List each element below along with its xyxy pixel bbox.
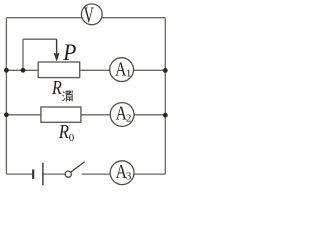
battery cell — [33, 163, 43, 185]
wire row1 A1-to-right — [133, 69, 165, 71]
voltmeter V — [81, 3, 102, 27]
slider arrow P — [54, 39, 59, 61]
wire slider feed horizontal — [23, 38, 57, 40]
svg-text:V: V — [84, 3, 95, 27]
wire row2 left segment — [6, 114, 41, 116]
svg-text:3: 3 — [126, 171, 132, 183]
wire row1 left segment — [6, 69, 38, 71]
label R0 — [58, 120, 75, 144]
node junction right-row1 — [163, 68, 168, 73]
ammeter A2 — [110, 102, 134, 127]
wire bottom-left segment — [6, 173, 32, 175]
wire top-right horizontal — [102, 17, 165, 19]
wire left vertical — [5, 18, 7, 174]
node junction slider-row1 — [21, 68, 26, 73]
label subscript hua (slide) glyph — [62, 90, 72, 101]
svg-text:P: P — [62, 39, 76, 65]
rheostat R1 box — [38, 62, 79, 78]
ammeter A1 — [110, 58, 134, 82]
wire battery-to-switch — [43, 173, 64, 175]
switch S — [65, 162, 85, 178]
wire right vertical — [164, 18, 166, 174]
node junction left-row2 — [4, 112, 9, 117]
resistor R0 box — [41, 107, 81, 122]
svg-text:0: 0 — [69, 132, 75, 144]
wire row2 A2-to-right — [134, 114, 165, 116]
wire A3-to-right — [134, 173, 165, 175]
wire switch-to-A3 — [82, 173, 111, 175]
ammeter A3 — [110, 160, 134, 185]
node junction right-row2 — [163, 113, 168, 118]
svg-text:R: R — [51, 76, 62, 98]
svg-text:A: A — [115, 58, 126, 80]
wire slider feed vertical — [22, 39, 24, 70]
wire row2 box-to-A2 — [81, 114, 110, 116]
svg-text:2: 2 — [126, 112, 131, 124]
svg-text:1: 1 — [126, 68, 131, 80]
wire top-left horizontal — [6, 17, 82, 19]
node junction left-row1 — [4, 68, 9, 73]
wire row1 box-to-A1 — [80, 69, 110, 71]
